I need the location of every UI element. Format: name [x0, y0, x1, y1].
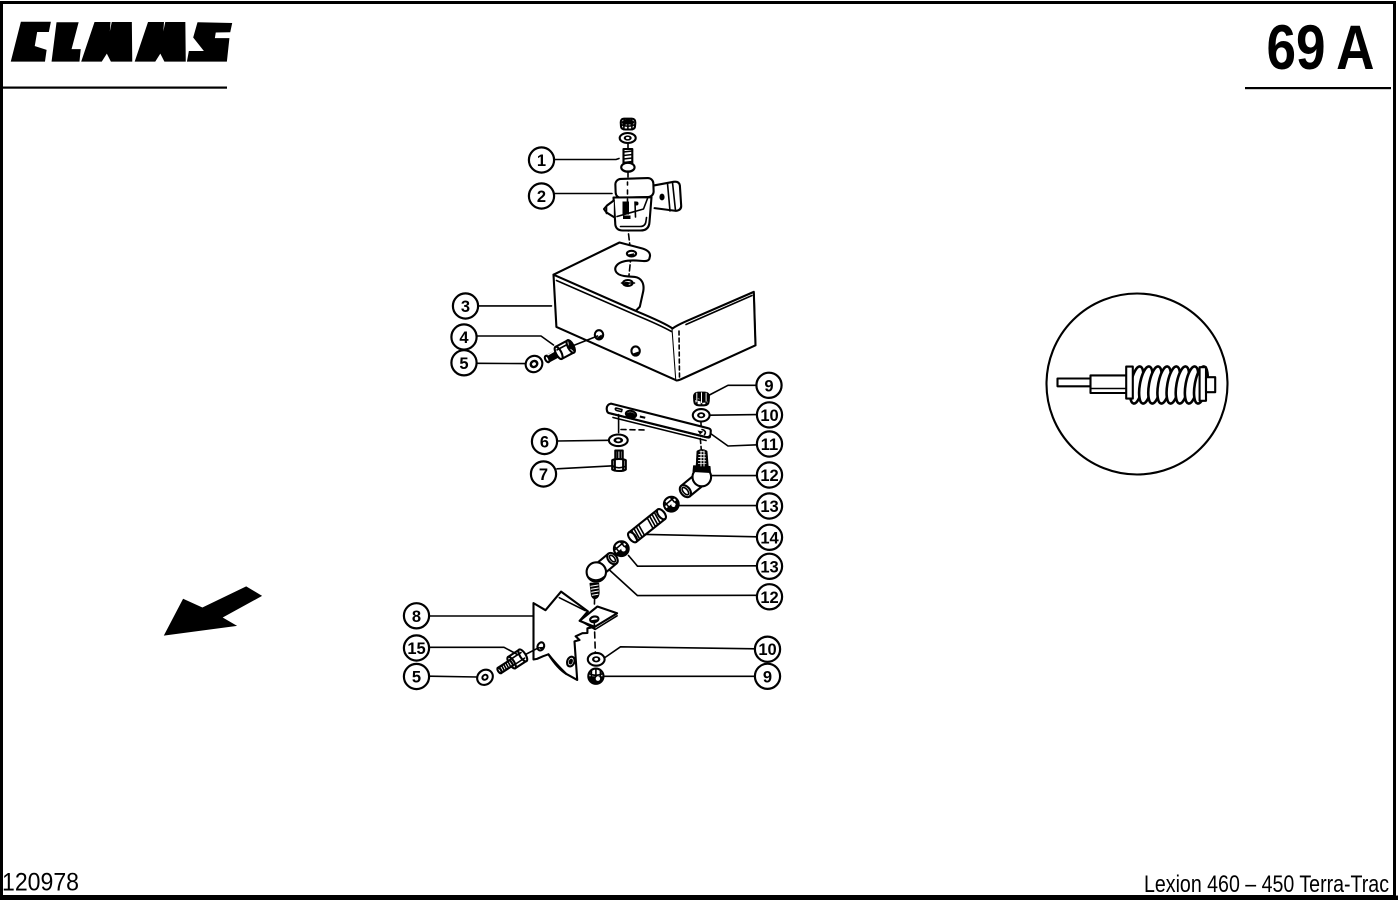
- svg-text:5: 5: [459, 355, 468, 373]
- detail circle: [1047, 294, 1228, 475]
- callout circle 14: [757, 525, 782, 550]
- svg-text:3: 3: [461, 298, 470, 316]
- leader line 9 lower: [605, 675, 756, 677]
- leader line 12: [712, 475, 757, 477]
- nut (top, for item 1): [621, 119, 636, 130]
- bracket item 8 bent tab (diamond): [580, 607, 617, 630]
- leader line 14: [647, 534, 758, 536]
- leader line 5: [477, 362, 526, 364]
- svg-text:13: 13: [760, 498, 778, 516]
- callout circle 3: [453, 293, 478, 318]
- diagram placeholder: [451, 119, 755, 381]
- svg-text:8: 8: [412, 608, 421, 626]
- detail: spring coils: [1128, 365, 1211, 404]
- logo underline: [3, 87, 227, 89]
- svg-text:15: 15: [407, 640, 425, 658]
- leader line 13: [676, 505, 757, 507]
- bracket item 3 (top face with tab and S-notch): [554, 243, 651, 311]
- washer (top, for item 1): [620, 133, 636, 143]
- bolt axis line for item 4: [571, 336, 598, 347]
- threaded rod item 14: [626, 507, 667, 543]
- svg-text:9: 9: [763, 668, 772, 686]
- svg-text:10: 10: [758, 641, 776, 659]
- bracket item 8 (plate): [534, 592, 595, 680]
- CLAAS logo: [12, 22, 232, 61]
- hole in plate (left): [536, 641, 545, 651]
- logo letter C: [12, 22, 51, 61]
- nut item 13 (upper): [661, 494, 682, 515]
- svg-text:11: 11: [761, 436, 778, 454]
- callout circle 6: [532, 429, 557, 454]
- logo letter L: [52, 23, 80, 61]
- bracket item 3 (right panel): [673, 292, 756, 381]
- svg-text:Lexion 460 – 450 Terra-Trac: Lexion 460 – 450 Terra-Trac: [1144, 871, 1389, 898]
- bracket top-face mounting hole: [622, 280, 635, 286]
- callout circle 13: [757, 554, 782, 579]
- bracket front-face hole B: [631, 346, 639, 355]
- center line segments at plate right end: [700, 422, 701, 451]
- ball joint item 12 (upper): [678, 450, 712, 499]
- svg-text:120978: 120978: [2, 869, 79, 897]
- logo letter A (first): [82, 23, 132, 61]
- leader line 10: [711, 414, 758, 417]
- logo letter S: [188, 23, 232, 61]
- leader line 10 lower: [605, 647, 756, 658]
- callout circle 11: [757, 431, 782, 456]
- leader line 12 lower: [610, 571, 757, 596]
- leader line 9: [708, 385, 757, 396]
- bolt item 7: [612, 451, 626, 472]
- callout circle 9: [756, 373, 781, 398]
- logo letter A (second): [136, 23, 186, 61]
- bracket front-face hole A: [595, 330, 603, 339]
- callout circle 12: [757, 462, 782, 487]
- leader line 11: [711, 434, 758, 447]
- callout circle 2: [529, 183, 554, 208]
- leader line 6: [557, 439, 608, 442]
- bolt item 15: [494, 648, 528, 677]
- big direction arrow: [164, 586, 262, 635]
- svg-text:69 A: 69 A: [1267, 13, 1375, 83]
- washer item 5: [522, 353, 545, 376]
- center axis line (top stack): [628, 143, 632, 291]
- svg-text:10: 10: [760, 407, 778, 425]
- leader line 3: [478, 305, 552, 307]
- bolt axis line for item 15: [523, 648, 539, 656]
- callout circle 5: [404, 664, 429, 689]
- svg-text:9: 9: [764, 377, 773, 395]
- washer item 10 (upper): [693, 409, 710, 421]
- nut item 9 (upper): [694, 393, 709, 406]
- callout circle 8: [404, 603, 429, 628]
- callout circle 4: [451, 324, 476, 349]
- hole in plate (right, dark): [566, 656, 576, 668]
- 69A underline: [1245, 87, 1391, 89]
- svg-text:5: 5: [412, 669, 421, 687]
- svg-text:1: 1: [537, 152, 546, 170]
- hidden edge lines below plate: [618, 415, 620, 433]
- svg-text:14: 14: [760, 529, 779, 547]
- leader line 4: [477, 336, 554, 345]
- callout circle 5: [451, 350, 476, 375]
- washer item 5 (lower): [474, 667, 496, 688]
- nut item 9 (lower): [588, 669, 603, 684]
- bracket tab hole: [627, 251, 636, 257]
- callout circle 10: [757, 402, 782, 427]
- callout circle 7: [531, 461, 556, 486]
- leader line 7: [557, 466, 613, 469]
- callout circle 13: [757, 493, 782, 518]
- svg-text:12: 12: [760, 467, 778, 485]
- detail: actuator rod tip: [1058, 375, 1128, 393]
- svg-text:6: 6: [540, 434, 549, 452]
- ball joint item 12 (lower): [587, 551, 620, 599]
- detail: spring flanges: [1126, 367, 1133, 399]
- leader line 15: [430, 647, 517, 654]
- callout circle 10: [755, 637, 780, 662]
- leader line 5 lower: [430, 675, 478, 678]
- washer item 10 (lower): [588, 653, 605, 666]
- sensor item 2: [604, 178, 682, 231]
- callout circle 9: [755, 664, 780, 689]
- leader line 2: [555, 193, 613, 195]
- bolt item 4: [542, 339, 576, 366]
- svg-text:2: 2: [537, 188, 546, 206]
- leader line 1: [555, 159, 620, 160]
- callout circle 15: [404, 635, 429, 660]
- bracket item 3 (front face): [554, 275, 677, 381]
- svg-text:7: 7: [539, 466, 548, 484]
- dashed stud line through tab hole: [594, 598, 595, 652]
- svg-text:4: 4: [459, 329, 469, 347]
- svg-text:12: 12: [760, 589, 778, 607]
- lever plate item 11: [607, 404, 711, 441]
- washer item 6: [609, 435, 628, 447]
- svg-text:13: 13: [760, 558, 778, 576]
- nut item 13 (lower): [611, 538, 632, 559]
- leader line 13 lower: [629, 556, 758, 567]
- leader line 8: [430, 615, 534, 617]
- callout circle 1: [529, 147, 554, 172]
- bolt item 1: [621, 149, 634, 172]
- callout circle 12: [757, 584, 782, 609]
